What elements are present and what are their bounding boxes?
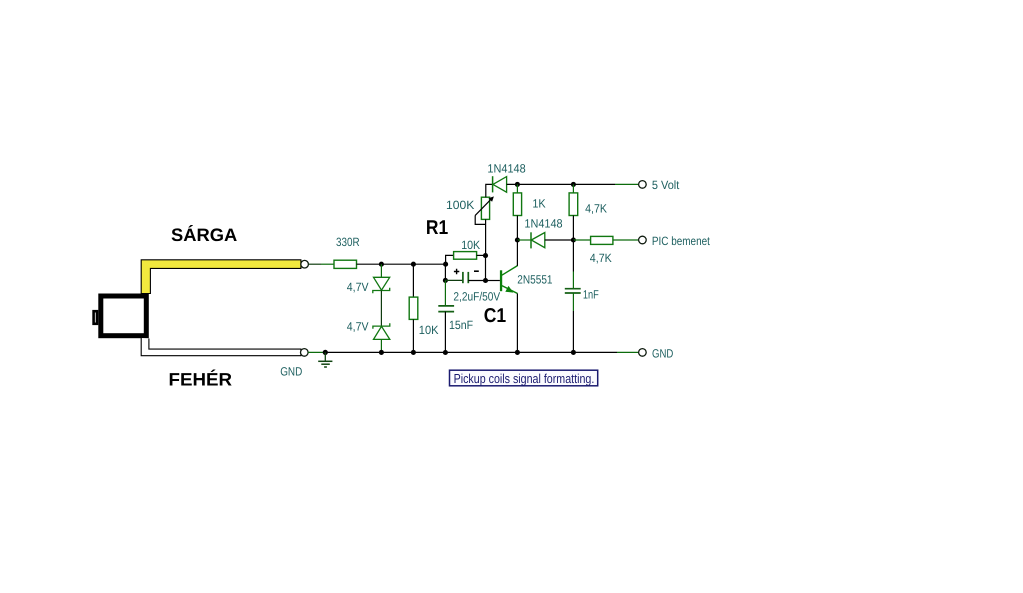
resistor 4,7K horizontal xyxy=(591,236,613,244)
wire 1nF bottom lead xyxy=(572,293,574,311)
svg-text:1K: 1K xyxy=(532,196,545,210)
wire zener2 bottom lead xyxy=(380,339,382,352)
wire collector lead xyxy=(516,240,518,266)
svg-text:10K: 10K xyxy=(419,323,439,337)
wire pot junction down to base node xyxy=(485,256,487,281)
wire PIC junction to 4,7K horizontal xyxy=(573,239,590,241)
diode 1N4148 second xyxy=(531,232,545,248)
svg-text:1nF: 1nF xyxy=(583,287,599,301)
svg-text:FEHÉR: FEHÉR xyxy=(169,370,233,390)
svg-text:2,2uF/50V: 2,2uF/50V xyxy=(453,289,500,303)
wire split down to cap node xyxy=(444,264,446,280)
wire 10K vertical top lead xyxy=(412,264,414,297)
node ground symbol junction xyxy=(323,350,328,355)
svg-text:330R: 330R xyxy=(336,235,360,249)
wire between zeners xyxy=(380,291,382,327)
svg-text:2N5551: 2N5551 xyxy=(517,273,552,287)
diode 1N4148 top xyxy=(493,176,507,192)
svg-text:SÁRGA: SÁRGA xyxy=(171,225,237,245)
svg-text:10K: 10K xyxy=(461,238,480,252)
wire diode2 to PIC junction xyxy=(545,239,574,241)
transistor Q1 2N5551 xyxy=(500,266,518,294)
wire emitter lead xyxy=(516,294,518,353)
wire zener1 top lead xyxy=(380,264,382,277)
wire cap node to C1 left plate xyxy=(445,279,462,281)
wire pot bottom lead xyxy=(485,219,487,255)
svg-text:4,7K: 4,7K xyxy=(590,251,612,265)
wire 4,7K vertical top lead xyxy=(572,184,574,193)
capacitor 15nF xyxy=(438,306,454,312)
node 1nF bottom junction xyxy=(571,350,576,355)
svg-text:15nF: 15nF xyxy=(449,318,473,332)
svg-text:5 Volt: 5 Volt xyxy=(652,178,680,192)
node zener top junction xyxy=(379,262,384,267)
resistor 1K xyxy=(513,193,521,216)
svg-text:4,7K: 4,7K xyxy=(585,202,607,216)
caption box xyxy=(450,370,598,386)
wire PIC junction down to 1nF xyxy=(572,240,574,272)
terminal input ground xyxy=(301,349,309,357)
resistor 10K vertical xyxy=(409,297,418,319)
svg-text:4,7V: 4,7V xyxy=(347,319,369,333)
wire 330R to split node xyxy=(357,263,446,265)
svg-text:100K: 100K xyxy=(446,198,474,212)
wire input terminal to 330R xyxy=(308,263,321,265)
node 1K top junction xyxy=(515,182,520,187)
svg-text:4,7V: 4,7V xyxy=(347,280,369,294)
wire 4,7K horizontal to PIC terminal xyxy=(613,239,639,241)
wire GND terminal stub xyxy=(617,351,639,353)
resistor 10K horizontal xyxy=(454,252,477,260)
terminal GND right xyxy=(639,349,647,357)
node 4,7K top junction xyxy=(571,182,576,187)
ground symbol xyxy=(318,352,332,367)
wire C1 right plate to base node xyxy=(468,280,485,282)
potentiometer R1 100K xyxy=(475,196,494,224)
svg-text:GND: GND xyxy=(652,346,674,360)
zener diode D1 4,7V xyxy=(373,277,390,293)
svg-text:GND: GND xyxy=(280,365,302,379)
wire 1K top lead xyxy=(516,184,518,193)
svg-text:1N4148: 1N4148 xyxy=(524,217,562,231)
wire split up-bend to 10K horizontal xyxy=(446,255,454,264)
wire base lead xyxy=(486,280,500,282)
node collector junction xyxy=(515,237,520,242)
node 10K top junction xyxy=(411,262,416,267)
terminal input signal xyxy=(301,260,309,268)
wire 4,7K vertical bottom lead xyxy=(572,216,574,240)
node pot bottom junction xyxy=(483,253,488,258)
wire yellow (SÁRGA lead) xyxy=(141,260,301,294)
wire 5V terminal stub xyxy=(615,183,639,185)
zener diode D2 4,7V xyxy=(373,323,390,339)
node zener bottom junction xyxy=(379,350,384,355)
terminal PIC bemenet xyxy=(639,236,647,244)
svg-text:PIC bemenet: PIC bemenet xyxy=(652,234,711,248)
svg-text:R1: R1 xyxy=(426,217,448,239)
node PIC junction xyxy=(571,237,576,242)
node 15nF bottom junction xyxy=(443,350,448,355)
svg-text:1N4148: 1N4148 xyxy=(487,161,526,175)
connector J1 tab xyxy=(94,311,97,324)
resistor 4,7K vertical xyxy=(569,193,578,216)
wire white (FEHÉR lead) xyxy=(141,338,301,356)
wire cap branch down to 15nF xyxy=(444,280,446,305)
connector J1 body xyxy=(101,296,147,336)
wire 5V rail xyxy=(507,183,615,185)
wire pot top lead and bend to diode xyxy=(486,184,492,197)
node emitter bottom junction xyxy=(515,350,520,355)
wire collector junction to diode2 xyxy=(517,239,530,241)
wire 1K bottom lead xyxy=(516,216,518,241)
node cap branch junction xyxy=(443,278,448,283)
wire 15nF bottom lead xyxy=(444,312,446,353)
wire 10K horizontal right lead xyxy=(477,254,486,256)
capacitor 1nF xyxy=(565,289,581,293)
node input split junction xyxy=(443,262,448,267)
svg-text:C1: C1 xyxy=(484,305,506,327)
capacitor C1 2,2uF/50V xyxy=(454,269,479,283)
terminal 5 Volt xyxy=(639,181,647,189)
wire 10K vertical bottom lead xyxy=(412,319,414,352)
resistor 330R xyxy=(334,260,357,268)
wire ground rail xyxy=(308,351,325,353)
svg-text:Pickup coils signal formatting: Pickup coils signal formatting. xyxy=(454,371,595,386)
node base junction xyxy=(483,278,488,283)
node 10K bottom junction xyxy=(411,350,416,355)
